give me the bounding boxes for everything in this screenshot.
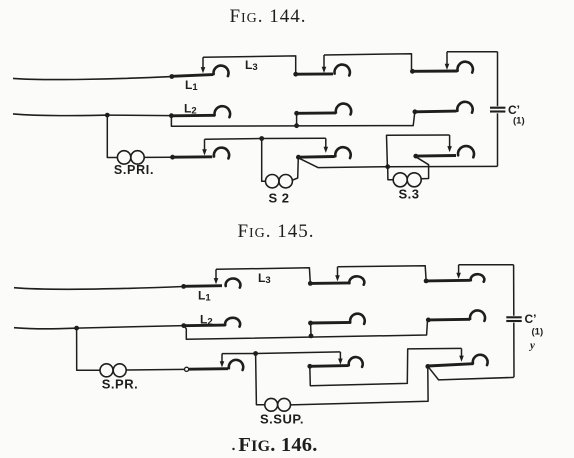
svg-text:S.PRI.: S.PRI. xyxy=(114,163,154,177)
L3 first section winding bar (row1 coil2) xyxy=(296,72,333,75)
junction dot at third coil left end (Fig.145 row1) xyxy=(424,279,429,284)
wire row1 coil2 tap to third coil xyxy=(324,54,412,69)
row2 coil2 winding bar (Fig.145) xyxy=(311,321,352,325)
bottom bus wire (Fig.144) xyxy=(300,158,498,167)
sliding-tap arrow on row1 coil2 (Fig.145) xyxy=(335,267,340,282)
primary coil end arc (Fig.145) xyxy=(229,360,243,370)
row3 coil3 end arc (Fig.145) xyxy=(473,355,488,365)
arrow into tertiary coil (row3 coil3) xyxy=(447,135,452,152)
junction dot above S.SUP xyxy=(253,351,258,356)
inductor L2 end arc xyxy=(215,106,231,117)
antenna lead-in wire (Fig.145 upper) xyxy=(14,287,183,290)
svg-text:FIG. 146.: FIG. 146. xyxy=(238,434,317,456)
wire down to spark gap S2 xyxy=(262,139,266,182)
svg-text:(1): (1) xyxy=(513,116,525,127)
primary coil winding bar (Fig.145) xyxy=(189,367,228,370)
right rail lower segment (Fig.145) xyxy=(513,323,515,378)
antenna lead-in wire (Fig.144 lower) xyxy=(13,114,107,116)
spark gap S2 (two balls) xyxy=(266,175,293,188)
sliding-tap arrow on L1 (Fig.145) xyxy=(214,269,219,284)
junction dot at L2 left end xyxy=(169,113,174,118)
row2 coil2 winding bar xyxy=(297,111,336,114)
wire row1 coil3 tap to right rail (Fig.145) xyxy=(459,264,514,266)
primary coil end arc (Fig.144) xyxy=(214,148,229,159)
secondary coil end arc (row3 coil2) xyxy=(335,147,350,158)
small open contact ring xyxy=(185,367,189,371)
inductor L1 winding bar xyxy=(172,75,213,77)
capacitor C1 plates (Fig.145) xyxy=(506,317,521,321)
row2 coil3 end arc (Fig.145) xyxy=(470,310,485,320)
junction dot at primary coil left end xyxy=(170,155,175,160)
wire to L2 xyxy=(107,114,171,117)
inductor L1 end arc (Fig.145) xyxy=(226,279,241,288)
wire S.PRI to primary coil xyxy=(144,156,172,158)
sliding-tap arrow on row1 coil3 xyxy=(445,52,450,70)
L2 parallel bus wire xyxy=(171,112,414,126)
spark gap S.PRI (two balls) xyxy=(117,151,144,164)
wire S.PR to primary coil (Fig.145) xyxy=(126,368,184,371)
sliding-tap arrow on primary coil xyxy=(202,139,207,155)
inductor L2 winding bar (Fig.145) xyxy=(184,324,226,328)
junction dot to S.PRI branch xyxy=(105,113,110,118)
svg-text:S 2: S 2 xyxy=(268,190,289,205)
junction dot at row3 coil3 left end (Fig.145) xyxy=(425,364,430,369)
secondary coil winding bar (row3 coil2) xyxy=(298,155,334,159)
arrow into row3 coil3 (Fig.145) xyxy=(459,348,464,361)
right rail upper segment (Fig.144) xyxy=(497,52,499,106)
wire down to spark gap S.PRI xyxy=(107,115,117,157)
junction dot at row2 coil2 left end xyxy=(294,111,299,116)
spark gap S3 (two balls) xyxy=(393,173,421,187)
wire down to spark gap S3 xyxy=(388,167,393,180)
row1 coil3 end arc xyxy=(457,62,472,73)
junction dot at secondary coil left end xyxy=(296,155,301,160)
right rail lower segment (Fig.144) xyxy=(497,113,499,166)
wire S2 up to secondary coil xyxy=(292,158,298,181)
stray ink speck before caption xyxy=(232,448,234,450)
bottom bus wire to right rail (Fig.145) xyxy=(429,367,514,380)
row3 coil2 winding bar (Fig.145) xyxy=(310,364,349,368)
junction dot at row2 coil3 left end (Fig.145) xyxy=(426,318,431,323)
junction dot on bus xyxy=(294,123,299,128)
junction dot at tertiary coil left end xyxy=(413,154,418,159)
wire L1 tap to second coil (Fig.145) xyxy=(216,268,310,281)
tap wire to S.SUP junction and row3 coil2 xyxy=(222,352,340,354)
svg-text:FIG. 145.: FIG. 145. xyxy=(237,221,314,242)
wire down to spark gap S.SUP xyxy=(256,354,265,405)
capacitor C1 plates (Fig.144) xyxy=(490,108,505,112)
wire row1 coil2 tap to third coil (Fig.145) xyxy=(338,266,427,279)
tertiary coil winding bar (row3 coil3) xyxy=(416,154,456,158)
antenna lead-in wire (Fig.145 lower) xyxy=(14,328,77,329)
junction dot above S2 xyxy=(259,136,264,141)
tap wire to S2 and secondary coil xyxy=(205,138,326,139)
svg-text:S.3: S.3 xyxy=(398,186,419,201)
svg-text:C’: C’ xyxy=(525,312,537,326)
tertiary coil end arc (row3 coil3) xyxy=(458,146,474,157)
row1 coil2 end arc xyxy=(334,65,349,76)
sliding-tap arrow on primary coil (Fig.145) xyxy=(220,354,225,368)
junction dot at L2 left end (Fig.145) xyxy=(181,323,186,328)
inductor L1 end arc xyxy=(214,66,229,76)
row3 coil2 end arc (Fig.145) xyxy=(349,357,363,367)
bus riser to row2 coil2 (Fig.145) xyxy=(310,323,312,336)
row2 coil2 end arc xyxy=(336,104,351,115)
svg-text:y: y xyxy=(528,340,535,352)
svg-text:FIG. 144.: FIG. 144. xyxy=(229,6,306,27)
junction dot at L1 left end xyxy=(169,74,174,79)
wire row1 coil3 tap to right rail xyxy=(447,51,498,53)
junction dot at third coil left end (row1) xyxy=(410,69,415,74)
svg-text:(1): (1) xyxy=(532,326,544,337)
svg-text:S.PR.: S.PR. xyxy=(102,376,138,391)
L2 parallel bus wire (Fig.145) xyxy=(184,322,427,340)
wire down to spark gap S.PR xyxy=(77,328,100,370)
junction dot on bus (Fig.145) xyxy=(309,334,314,339)
row1 coil2 winding bar (Fig.145) xyxy=(310,281,350,284)
row2 coil3 winding bar xyxy=(415,110,457,114)
row2 coil3 end arc xyxy=(457,102,472,113)
tap wire over S3 coil xyxy=(387,135,450,167)
svg-text:S.SUP.: S.SUP. xyxy=(260,411,304,426)
L3 second section winding bar (row1 coil3) xyxy=(412,70,457,73)
sliding-tap arrow on row1 coil3 (Fig.145) xyxy=(456,265,461,279)
spark gap S.PR (two balls) xyxy=(100,364,126,377)
primary coil winding bar (Fig.144) xyxy=(173,155,213,158)
junction dot at row2 coil2 left end (Fig.145) xyxy=(308,321,313,326)
row2 coil3 winding bar (Fig.145) xyxy=(428,318,470,322)
wire L1 tap to second coil xyxy=(203,56,296,72)
row1 coil3 winding bar (Fig.145) xyxy=(426,279,470,283)
spark gap S.SUP (two balls) xyxy=(265,398,291,411)
row2 coil2 end arc (Fig.145) xyxy=(350,314,365,324)
junction dot at second coil left end (row1) xyxy=(293,72,298,77)
wire S.SUP to row3 coil3 left end xyxy=(291,369,429,405)
arrow into row3 coil2 (Fig.145) xyxy=(338,352,343,365)
junction dot at row2 coil3 left end xyxy=(413,109,418,114)
sliding-tap arrow on row1 coil2 xyxy=(322,55,327,73)
junction dot at second coil left end (Fig.145 row1) xyxy=(308,281,313,286)
wire to L2 (Fig.145) xyxy=(77,326,184,329)
bus riser to row2 coil2 xyxy=(296,113,298,125)
row1 coil2 end arc (Fig.145) xyxy=(349,276,364,284)
inductor L2 end arc (Fig.145) xyxy=(225,318,240,327)
loop wire from row3 coil2 to coil3 tap xyxy=(310,348,462,385)
junction dot above S3 xyxy=(385,164,390,169)
right rail upper segment (Fig.145) xyxy=(513,265,515,316)
antenna lead-in wire (Fig.144 upper) xyxy=(13,77,172,80)
inductor L1 winding bar (Fig.145) xyxy=(184,284,222,287)
inductor L2 winding bar xyxy=(171,114,215,117)
junction dot to S.PR branch xyxy=(74,326,79,331)
wire S3 up to tertiary coil xyxy=(417,157,429,179)
row1 coil3 end arc (Fig.145) xyxy=(471,274,485,282)
arrow into secondary coil (row3 coil2) xyxy=(324,138,329,153)
junction dot at L1 left end (Fig.145) xyxy=(181,284,186,289)
sliding-tap arrow on L1 xyxy=(201,57,206,73)
row3 coil3 winding bar (Fig.145) xyxy=(428,364,474,366)
junction dot at row3 coil2 left end (Fig.145) xyxy=(307,364,312,369)
